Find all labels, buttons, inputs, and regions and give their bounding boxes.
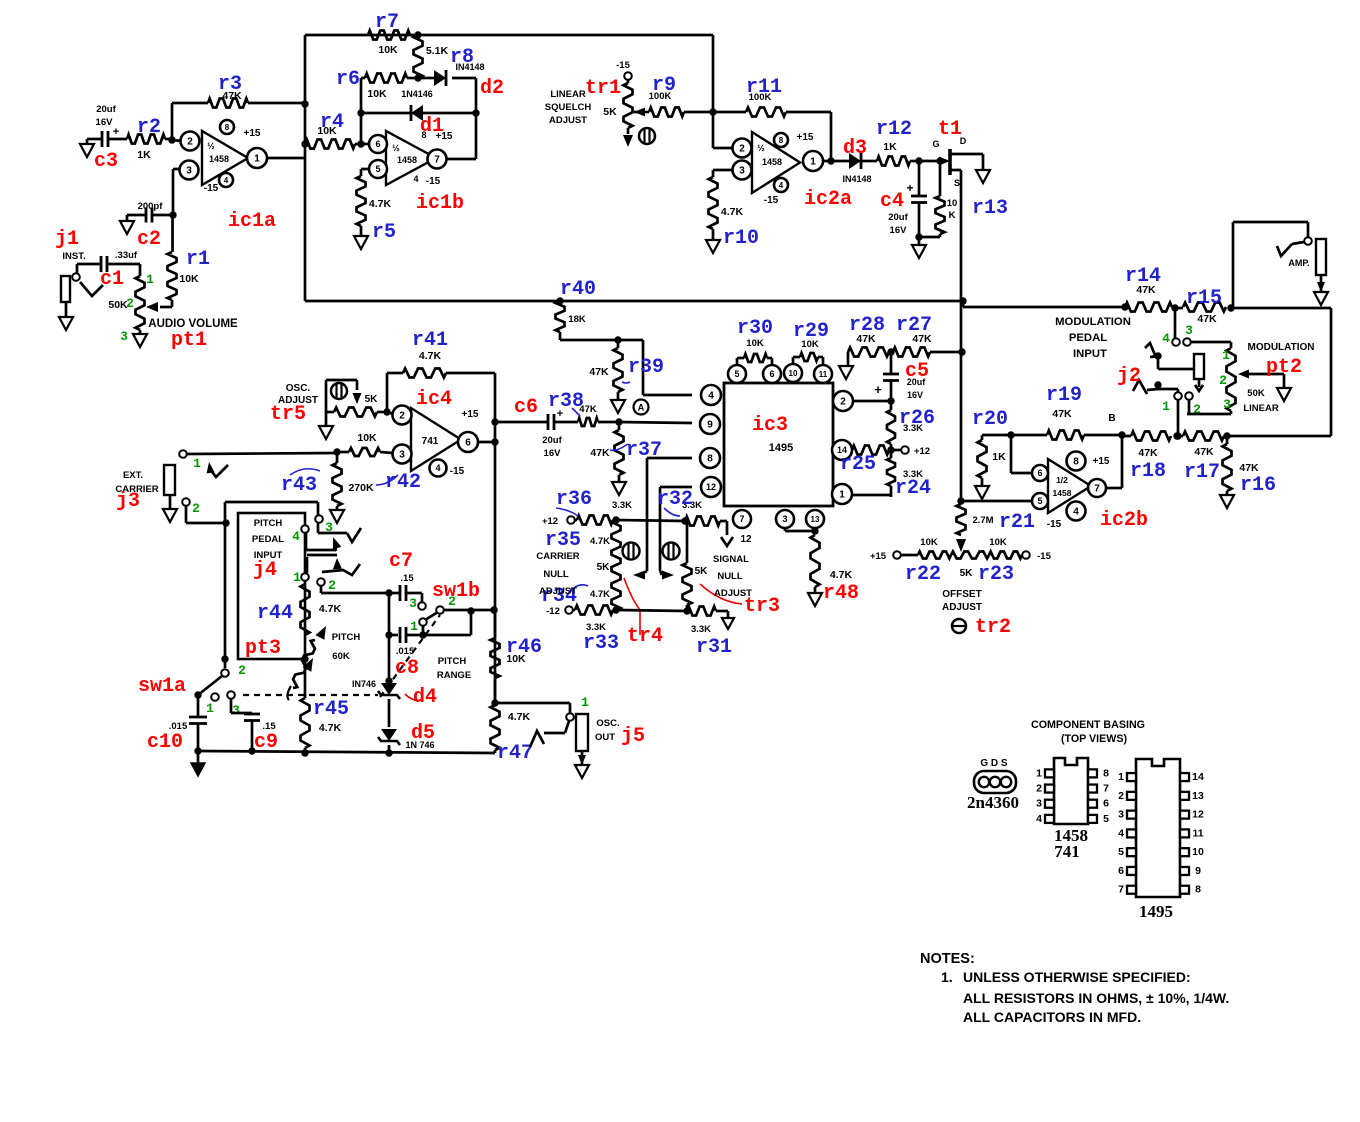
- label tr2: [975, 616, 1011, 639]
- wire t1 source down: [957, 176, 965, 505]
- svg-text:tr1: tr1: [585, 77, 621, 100]
- wire node to pin2: [172, 140, 182, 141]
- node B: [1108, 413, 1115, 424]
- label r40: [560, 278, 596, 301]
- svg-text:c10: c10: [147, 731, 183, 754]
- svg-text:j3: j3: [116, 490, 140, 513]
- jack J5 OSC OUT: [530, 713, 620, 751]
- svg-text:ADJUST: ADJUST: [539, 586, 577, 597]
- svg-text:r24: r24: [895, 477, 931, 500]
- ground at R48: [808, 593, 822, 606]
- svg-text:LINEAR: LINEAR: [1243, 403, 1279, 414]
- svg-text:A: A: [638, 403, 645, 413]
- wire pin4 path from 18K node: [618, 340, 692, 395]
- svg-text:r32: r32: [657, 488, 693, 511]
- svg-text:r5: r5: [372, 221, 396, 244]
- svg-text:r39: r39: [628, 356, 664, 379]
- svg-text:7: 7: [1118, 884, 1124, 896]
- wire left box edge / feedback node: [304, 35, 307, 301]
- svg-text:+12: +12: [542, 516, 558, 527]
- svg-text:3: 3: [1118, 809, 1124, 821]
- svg-text:r44: r44: [257, 602, 293, 625]
- svg-text:+15: +15: [436, 131, 453, 142]
- svg-text:14: 14: [1192, 771, 1204, 783]
- label c10: [147, 731, 183, 754]
- label r39: [628, 356, 664, 379]
- svg-text:½: ½: [757, 143, 765, 153]
- ic3 pin 2: [833, 391, 853, 411]
- label r21: [999, 511, 1035, 534]
- svg-text:ic3: ic3: [752, 414, 788, 437]
- resistor R2 1K: [127, 135, 176, 162]
- svg-text:2: 2: [1036, 783, 1042, 795]
- svg-text:3.3K: 3.3K: [612, 500, 632, 511]
- wire r21 node to pin5: [961, 500, 1033, 503]
- svg-text:pt2: pt2: [1266, 356, 1302, 379]
- svg-text:10: 10: [789, 369, 798, 378]
- svg-text:r26: r26: [899, 407, 935, 430]
- svg-text:+15: +15: [244, 128, 261, 139]
- svg-text:1458: 1458: [1053, 488, 1072, 498]
- pointer r39: [622, 382, 630, 383]
- svg-text:ADJUST: ADJUST: [549, 115, 587, 126]
- j2 upper switch arm: [1145, 343, 1194, 369]
- j4 pin 2 label: [328, 578, 336, 593]
- svg-text:.015: .015: [396, 646, 415, 657]
- ground at R31: [722, 618, 734, 629]
- ground at PT1: [133, 330, 147, 347]
- j3 pin 1 label: [193, 456, 201, 471]
- svg-text:7: 7: [1094, 484, 1100, 495]
- svg-text:60K: 60K: [332, 651, 350, 662]
- svg-text:r31: r31: [696, 636, 732, 659]
- wire j2 contact1 down to r18 node: [1174, 399, 1181, 440]
- svg-text:ALL RESISTORS IN OHMS, ± 10%,: ALL RESISTORS IN OHMS, ± 10%, 1/4W.: [963, 990, 1229, 1006]
- label c6: [514, 396, 538, 419]
- svg-text:4: 4: [1162, 331, 1170, 346]
- svg-text:r41: r41: [412, 329, 448, 352]
- resistor R20 1K: [978, 431, 1015, 486]
- label t1: [938, 118, 962, 141]
- svg-text:6: 6: [1103, 798, 1109, 810]
- resistor R46 10K: [490, 606, 526, 706]
- label r44: [257, 602, 293, 625]
- svg-text:10K: 10K: [367, 88, 387, 100]
- svg-text:c7: c7: [389, 550, 413, 573]
- svg-text:-15: -15: [204, 183, 219, 194]
- svg-text:.33uf: .33uf: [115, 250, 138, 261]
- label c3: [94, 150, 118, 173]
- svg-text:OSC.: OSC.: [596, 718, 619, 729]
- label ic1b: [416, 192, 464, 215]
- svg-text:1: 1: [1162, 399, 1170, 414]
- ground at J5: [575, 751, 589, 778]
- svg-text:UNLESS OTHERWISE SPECIFIED:: UNLESS OTHERWISE SPECIFIED:: [963, 969, 1191, 985]
- svg-text:sw1a: sw1a: [138, 675, 186, 698]
- svg-text:5K: 5K: [960, 568, 974, 579]
- svg-text:1: 1: [1036, 767, 1042, 779]
- diode D1 1N4148: [357, 105, 479, 159]
- label ic1a: [228, 210, 276, 233]
- svg-text:11: 11: [819, 370, 828, 379]
- label r47: [497, 742, 533, 765]
- svg-text:4: 4: [779, 181, 784, 190]
- ic3 pin 10: [784, 364, 802, 382]
- svg-text:r1: r1: [186, 248, 210, 271]
- svg-text:r43: r43: [281, 474, 317, 497]
- text EXT CARRIER: [115, 470, 158, 495]
- resistor R17 47K: [1177, 432, 1231, 459]
- svg-text:ic4: ic4: [416, 388, 452, 411]
- svg-text:-15: -15: [1047, 519, 1062, 530]
- ic3 pin 5: [728, 365, 746, 383]
- IC basing 1495 DIP-14: [1118, 759, 1204, 921]
- svg-text:5: 5: [1118, 846, 1124, 858]
- svg-text:4.7K: 4.7K: [508, 711, 531, 723]
- svg-text:4: 4: [708, 391, 714, 402]
- label c1: [100, 268, 124, 291]
- IC basing 1458 / 741 DIP-8: [1036, 758, 1109, 861]
- svg-text:1: 1: [193, 456, 201, 471]
- j1 switch arm: [80, 282, 103, 296]
- svg-text:16V: 16V: [96, 117, 114, 128]
- label r23: [978, 563, 1014, 586]
- svg-text:-15: -15: [764, 195, 779, 206]
- svg-text:7: 7: [1103, 783, 1109, 795]
- svg-text:3: 3: [399, 450, 405, 461]
- resistor R23 10K: [989, 552, 1023, 559]
- wire r46 node to J5: [495, 703, 570, 713]
- svg-text:tr5: tr5: [270, 403, 306, 426]
- svg-text:10K: 10K: [989, 537, 1007, 548]
- label r35: [545, 529, 581, 552]
- wire pin3 pin13 to r48: [785, 527, 819, 534]
- svg-text:10K: 10K: [378, 44, 398, 56]
- svg-text:tr4: tr4: [627, 625, 663, 648]
- svg-text:PITCH: PITCH: [332, 632, 361, 643]
- svg-text:CARRIER: CARRIER: [536, 551, 579, 562]
- wire R1 top to C2 node: [171, 215, 174, 252]
- label r5: [372, 221, 396, 244]
- resistor R16 47K: [1223, 436, 1260, 495]
- svg-text:5: 5: [375, 164, 380, 174]
- capacitor C8 .015: [385, 627, 423, 657]
- diode D4 zener 1N746: [352, 679, 400, 699]
- svg-text:3: 3: [186, 166, 192, 177]
- svg-text:S: S: [954, 178, 960, 188]
- svg-text:18K: 18K: [568, 314, 586, 325]
- label r36: [556, 488, 592, 516]
- label d3: [843, 137, 867, 160]
- svg-text:4.7K: 4.7K: [590, 536, 610, 547]
- svg-text:r40: r40: [560, 278, 596, 301]
- svg-text:r2: r2: [137, 116, 161, 139]
- svg-text:2: 2: [238, 663, 246, 678]
- wire pin12 to tr3 wiper: [660, 487, 692, 580]
- svg-text:4.7K: 4.7K: [369, 198, 392, 210]
- wire null box top: [616, 517, 689, 524]
- svg-text:6: 6: [769, 369, 774, 379]
- svg-text:r16: r16: [1240, 474, 1276, 497]
- svg-text:1K: 1K: [992, 451, 1006, 463]
- svg-text:47K: 47K: [590, 447, 610, 459]
- label c2: [137, 228, 161, 251]
- svg-text:1: 1: [254, 154, 260, 165]
- svg-text:PEDAL: PEDAL: [1069, 332, 1107, 344]
- label tr5: [270, 403, 306, 426]
- label r25: [840, 453, 876, 476]
- label c5: [905, 360, 929, 383]
- wire c6 node to pin9: [619, 422, 692, 423]
- svg-text:c1: c1: [100, 268, 124, 291]
- screw symbol TR4: [623, 543, 640, 560]
- svg-text:-15: -15: [616, 60, 630, 71]
- j4 pin 3 label: [325, 520, 333, 535]
- svg-text:-12: -12: [546, 606, 560, 617]
- svg-text:8: 8: [1195, 884, 1201, 896]
- svg-text:1N4146: 1N4146: [401, 89, 433, 99]
- svg-text:ic2b: ic2b: [1100, 509, 1148, 532]
- svg-text:50K: 50K: [1247, 388, 1265, 399]
- svg-text:r6: r6: [336, 68, 360, 91]
- svg-text:LINEAR: LINEAR: [550, 89, 586, 100]
- svg-text:OSC.: OSC.: [286, 383, 311, 394]
- svg-text:2: 2: [192, 501, 200, 516]
- svg-text:½: ½: [392, 143, 400, 153]
- screw symbol TR5: [331, 383, 347, 399]
- pt2 pin 1 label: [1222, 348, 1230, 363]
- svg-text:10: 10: [1192, 846, 1204, 858]
- capacitor C7 .15: [389, 573, 422, 602]
- j4 pin 4 label: [292, 529, 300, 544]
- svg-text:+: +: [113, 126, 119, 138]
- capacitor C6 20uf 16V: [491, 408, 578, 459]
- svg-text:d5: d5: [411, 722, 435, 745]
- svg-text:c8: c8: [395, 657, 419, 680]
- svg-text:r7: r7: [375, 11, 399, 34]
- svg-text:5: 5: [1103, 813, 1109, 825]
- svg-text:d2: d2: [480, 77, 504, 100]
- svg-text:c3: c3: [94, 150, 118, 173]
- svg-text:r27: r27: [896, 314, 932, 337]
- text NOTES: [920, 951, 1229, 1025]
- resistor R6 10K: [361, 74, 422, 101]
- j2 pin 3 label: [1185, 323, 1193, 338]
- svg-text:AMP.: AMP.: [1288, 258, 1309, 268]
- ground at C3: [80, 139, 94, 157]
- resistor R39 47K: [589, 340, 622, 400]
- label ic3: [752, 414, 788, 437]
- svg-text:r10: r10: [723, 227, 759, 250]
- potentiometer PT2 50K LINEAR MODULATION: [1227, 342, 1315, 414]
- svg-text:1: 1: [293, 570, 301, 585]
- svg-text:2: 2: [126, 296, 134, 311]
- j2 lower switch arm: [1133, 380, 1178, 394]
- svg-text:r19: r19: [1046, 384, 1082, 407]
- svg-text:-15: -15: [426, 176, 441, 187]
- svg-text:1.: 1.: [941, 969, 953, 985]
- svg-text:1495: 1495: [769, 442, 793, 454]
- svg-text:6: 6: [1118, 865, 1124, 877]
- pt2 pin 2 label: [1219, 373, 1227, 388]
- svg-text:r15: r15: [1186, 287, 1222, 310]
- potentiometer PT1 50K AUDIO VOLUME: [108, 276, 238, 330]
- svg-text:ic1a: ic1a: [228, 210, 276, 233]
- svg-text:SIGNAL: SIGNAL: [713, 554, 749, 565]
- svg-text:1495: 1495: [1139, 902, 1173, 921]
- label pt3: [245, 637, 281, 660]
- capacitor C2 200pf: [127, 201, 177, 223]
- svg-text:t1: t1: [938, 118, 962, 141]
- ground at C2: [120, 215, 134, 234]
- svg-text:1/2: 1/2: [1056, 475, 1068, 485]
- svg-text:3: 3: [1185, 323, 1193, 338]
- j4 contact 4: [301, 525, 309, 533]
- j2 lower contacts: [1174, 392, 1193, 400]
- svg-text:9: 9: [707, 420, 713, 431]
- resistor R38 47K: [578, 404, 623, 426]
- svg-text:2: 2: [187, 137, 193, 148]
- svg-text:4.7K: 4.7K: [319, 722, 342, 734]
- svg-text:2: 2: [328, 578, 336, 593]
- label r10: [723, 227, 759, 250]
- svg-text:j5: j5: [621, 725, 645, 748]
- svg-text:r47: r47: [497, 742, 533, 765]
- svg-text:1458: 1458: [209, 154, 229, 164]
- resistor R10 4.7K: [709, 170, 744, 240]
- label c8: [395, 657, 419, 680]
- svg-text:9: 9: [1195, 865, 1201, 877]
- text 1495 in IC3: [769, 442, 793, 454]
- wire null box bottom: [616, 607, 691, 614]
- resistor R26 3.3K: [887, 401, 923, 454]
- label c9: [254, 731, 278, 754]
- resistor R42 10K: [333, 432, 393, 456]
- svg-text:20uf: 20uf: [542, 435, 562, 446]
- resistor R33 3.3K: [572, 606, 620, 634]
- jack J4 contact r43-3: [315, 515, 323, 523]
- svg-text:r36: r36: [556, 488, 592, 511]
- op-amp IC4 741: [393, 406, 479, 478]
- resistor R48 4.7K: [811, 535, 853, 593]
- svg-text:r4: r4: [320, 111, 344, 134]
- svg-text:7: 7: [434, 155, 440, 166]
- svg-text:16V: 16V: [907, 390, 923, 400]
- svg-text:200pf: 200pf: [138, 201, 164, 212]
- svg-text:PITCH: PITCH: [438, 656, 467, 667]
- diode D5 zener 1N746: [378, 699, 435, 757]
- ic3 pin 9: [700, 414, 720, 434]
- label d5: [411, 722, 435, 745]
- svg-text:1: 1: [146, 272, 154, 287]
- svg-text:13: 13: [1192, 790, 1204, 802]
- svg-text:COMPONENT BASING: COMPONENT BASING: [1031, 719, 1145, 731]
- svg-text:MODULATION: MODULATION: [1247, 342, 1314, 353]
- ground at R43: [330, 510, 344, 523]
- wire IC1B output to feedback: [446, 158, 476, 161]
- svg-text:ADJUST: ADJUST: [714, 588, 752, 599]
- label j1: [55, 228, 79, 251]
- capacitor C4 20uf 16V: [888, 161, 927, 241]
- label r30: [737, 317, 773, 340]
- wire bottom bus: [198, 751, 495, 753]
- op-amp IC2A 1/2 1458: [733, 132, 824, 206]
- svg-text:r30: r30: [737, 317, 773, 340]
- ic3 pin 7: [733, 510, 751, 528]
- pt1 pin 1: [146, 272, 154, 287]
- svg-text:SQUELCH: SQUELCH: [545, 102, 592, 113]
- wire r20 node to pin6: [1011, 435, 1033, 473]
- svg-text:G D S: G D S: [980, 758, 1008, 769]
- resistor R18 47K: [1122, 432, 1181, 460]
- wire j4 outer left: [221, 502, 318, 668]
- label r43: [281, 469, 320, 497]
- jack J4 pitch pedal box: [238, 513, 305, 659]
- svg-text:8: 8: [779, 136, 784, 145]
- svg-text:j1: j1: [55, 228, 79, 251]
- screw symbol TR2: [952, 619, 966, 633]
- resistor R41 4.7K (feedback): [387, 350, 495, 422]
- svg-text:1: 1: [206, 701, 214, 716]
- svg-text:5K: 5K: [597, 562, 611, 573]
- svg-text:1: 1: [1118, 771, 1124, 783]
- label r20: [972, 408, 1008, 431]
- svg-text:r3: r3: [218, 73, 242, 96]
- capacitor C10 .015: [169, 695, 207, 755]
- resistor R29 10K: [793, 339, 823, 365]
- ic3 pin 12: [701, 477, 721, 497]
- svg-text:12: 12: [1192, 809, 1204, 821]
- label tr3: [700, 584, 780, 618]
- label r19: [1046, 384, 1082, 407]
- ic3 pin 11: [814, 365, 832, 383]
- svg-text:4: 4: [1118, 827, 1124, 839]
- op-amp IC1A 1/2 1458: [180, 120, 268, 194]
- ic3 pin 13: [806, 510, 824, 528]
- resistor R45 4.7K: [301, 655, 342, 756]
- ground at T1 drain: [976, 154, 990, 183]
- resistor R14 47K: [1125, 284, 1179, 312]
- svg-text:3: 3: [409, 596, 417, 611]
- label r38: [548, 390, 584, 416]
- ground at R10: [706, 240, 720, 253]
- trimmer TR5 5K OSC ADJUST: [278, 380, 391, 417]
- label r11: [746, 76, 782, 99]
- ground at C10: [191, 751, 205, 776]
- svg-text:4: 4: [435, 463, 440, 473]
- svg-text:IN746: IN746: [352, 679, 376, 689]
- svg-text:r35: r35: [545, 529, 581, 552]
- terminal +12 carrier null: [542, 516, 575, 527]
- sw1b pin 1 label: [410, 619, 418, 634]
- svg-text:47K: 47K: [589, 366, 609, 378]
- ground at AMP jack: [1314, 275, 1328, 305]
- svg-text:8: 8: [421, 130, 426, 140]
- svg-text:3: 3: [782, 514, 787, 524]
- svg-text:r13: r13: [972, 197, 1008, 220]
- text PITCH RANGE: [437, 656, 471, 681]
- svg-text:½: ½: [207, 141, 215, 151]
- sw1b pin 2 label: [448, 594, 456, 609]
- svg-text:r12: r12: [876, 118, 912, 141]
- svg-text:1458: 1458: [762, 157, 782, 167]
- svg-text:K: K: [949, 210, 956, 221]
- label r28: [849, 314, 885, 337]
- label ic4: [416, 388, 452, 411]
- wire j4 contact2 to c7: [321, 585, 393, 597]
- svg-text:MODULATION: MODULATION: [1055, 316, 1131, 328]
- svg-text:16V: 16V: [544, 448, 562, 459]
